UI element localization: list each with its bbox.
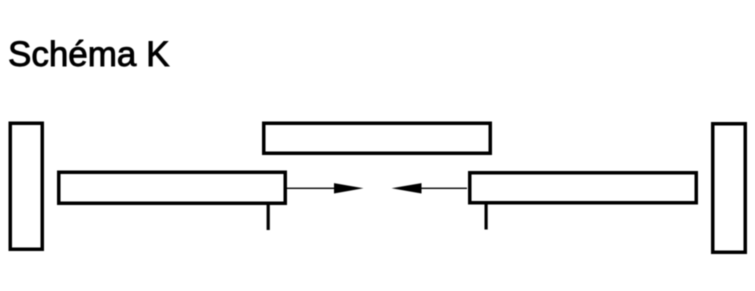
right arrow shaft [420, 187, 467, 189]
right sliding panel [470, 173, 697, 203]
svg-text:Schéma K: Schéma K [8, 35, 169, 74]
left wall post [10, 123, 42, 249]
right wall post [713, 124, 746, 253]
left sliding panel [59, 172, 286, 203]
left arrow shaft [286, 187, 336, 189]
right handle tick [485, 204, 488, 230]
left handle tick [267, 204, 270, 230]
right arrow head [392, 183, 422, 193]
left arrow head [334, 183, 364, 193]
fixed top panel [264, 123, 491, 153]
